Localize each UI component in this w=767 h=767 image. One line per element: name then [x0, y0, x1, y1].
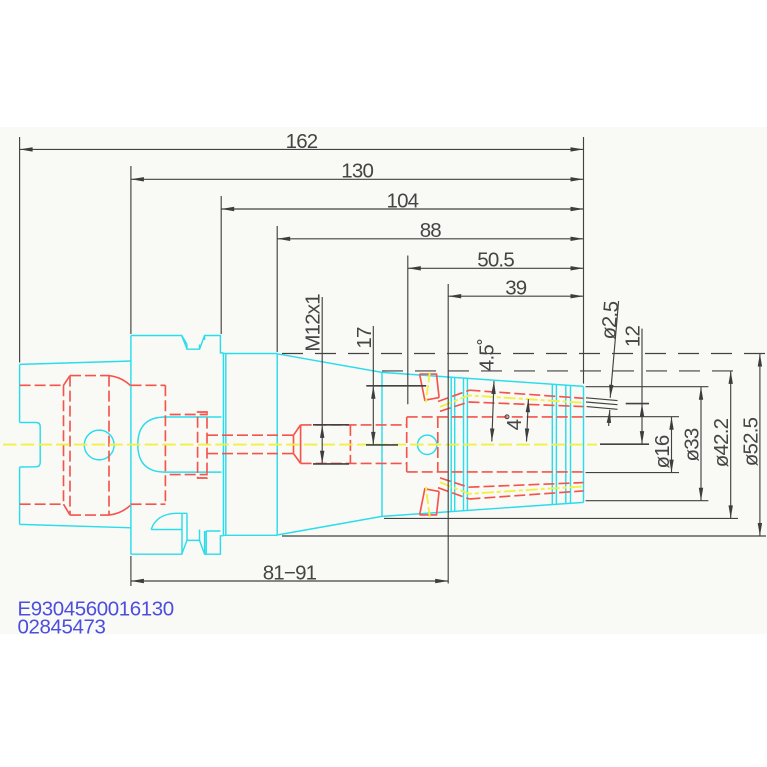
17 feature tick: [366, 385, 426, 387]
HSK shank outline: [20, 361, 131, 528]
extension line 88: [276, 226, 278, 352]
collet slot centerline upper: [426, 372, 430, 402]
dimension 104: [221, 208, 583, 210]
dimension 50.5: [408, 267, 584, 269]
nose end face: [583, 386, 585, 502]
main centerline: [3, 444, 597, 446]
12 tick: [626, 403, 649, 405]
svg-text:39: 39: [505, 277, 527, 300]
svg-text:02845473: 02845473: [18, 616, 106, 639]
svg-text:81−91: 81−91: [263, 561, 317, 584]
collet seat square: [407, 417, 438, 472]
M12x1 dimension line: [321, 297, 323, 425]
shallow 4deg cone edges: [382, 372, 584, 516]
svg-text:104: 104: [386, 189, 418, 212]
thread countersink: [294, 425, 301, 464]
svg-text:50.5: 50.5: [477, 249, 514, 272]
collet clamp range upper: [469, 390, 584, 406]
HSK bore dashed lines: [20, 385, 166, 504]
extension line nose face: [583, 137, 585, 384]
svg-text:ø52.5: ø52.5: [739, 417, 762, 466]
4deg dimension: [527, 399, 529, 441]
collet pilot circle: [418, 435, 437, 454]
Ø52.5 bottom extension: [282, 535, 766, 537]
flange left face: [130, 336, 132, 555]
flange bore vertical: [164, 385, 166, 504]
coolant pilot hole dashed: [207, 435, 294, 453]
extension line 50.5: [407, 256, 409, 405]
svg-text:4.5˚: 4.5˚: [476, 339, 499, 371]
coolant tube (dome): [138, 417, 222, 472]
svg-text:17: 17: [353, 327, 376, 349]
cone junction vertical: [381, 372, 383, 516]
HSK cavity outline: [63, 385, 65, 504]
collet range centerline upper: [440, 395, 584, 407]
svg-text:130: 130: [341, 160, 373, 183]
collet steep taper upper: [438, 390, 469, 411]
Ø16 ticks: [586, 417, 679, 473]
clamping nut rings: [552, 384, 570, 504]
17 centerline tick: [366, 444, 398, 446]
17 dimension line: [372, 326, 374, 386]
dimension 88: [277, 238, 583, 240]
svg-text:ø16: ø16: [651, 435, 674, 468]
flange top profile with V-groove: [131, 336, 224, 353]
extension line 104: [220, 196, 222, 334]
Ø2.5 leader ticks: [586, 398, 618, 410]
svg-text:ø2.5: ø2.5: [597, 300, 623, 340]
collet slot ear upper: [420, 374, 440, 400]
HSK left-face notch: [20, 423, 41, 468]
Ø52.5 top extension dashed: [282, 353, 766, 355]
M12 thread bore dashed: [301, 425, 407, 464]
dimension 162: [20, 148, 584, 150]
collet range centerline lower: [440, 482, 584, 494]
centerline tick right: [600, 443, 649, 445]
cone base face: [276, 354, 278, 536]
cavity corner chamfers: [64, 376, 71, 515]
collet slot centerline lower: [426, 487, 430, 517]
svg-text:ø42.2: ø42.2: [710, 418, 733, 467]
collet slot ear lower: [420, 489, 440, 515]
dimension 130: [131, 178, 584, 180]
nut rear rings: [451, 377, 467, 512]
svg-text:ø33: ø33: [681, 428, 704, 461]
svg-text:12: 12: [622, 326, 645, 348]
collet bore Ø16 dashed: [407, 417, 584, 472]
V-groove inner verticals top: [182, 336, 205, 350]
dimension 39: [448, 295, 583, 297]
Ø2.5 leader line: [610, 301, 618, 398]
adjust screw rect: [198, 412, 207, 478]
cavity mouth arcs: [109, 376, 130, 515]
bottom flange slot verticals: [182, 513, 220, 554]
collet steep taper lower: [438, 478, 469, 499]
Ø42.2 dimension line: [730, 371, 732, 519]
svg-text:4˚: 4˚: [503, 414, 526, 431]
Ø52.5 dimension line: [759, 354, 761, 537]
dimension 81-91: [131, 580, 448, 582]
extension line left shank: [19, 137, 21, 363]
Ø42.2 top extension dashed: [382, 370, 738, 372]
svg-text:162: 162: [286, 130, 318, 153]
Ø33 ticks: [586, 387, 709, 501]
Ø42.2 bottom extension: [384, 517, 738, 519]
extension line 39 / 81-91 right: [447, 284, 449, 584]
extension line flange left: [130, 166, 132, 586]
collet clamp range lower: [469, 483, 584, 499]
flange bottom profile with V-groove: [131, 536, 224, 554]
M12 ticks: [313, 425, 349, 464]
HSK pilot hole circle: [84, 430, 114, 460]
4.5deg dimension: [492, 381, 494, 442]
tube seat bore dashed: [170, 415, 208, 475]
drawing canvas tint: [0, 127, 767, 634]
body cylinder: [223, 353, 277, 536]
steep cone edges: [277, 354, 382, 535]
Ø16 dimension line: [671, 417, 673, 473]
Ø33 dimension line: [700, 387, 702, 501]
svg-text:88: 88: [420, 219, 442, 242]
drive slot leaf (bottom flange): [151, 513, 187, 529]
12 dimension line: [641, 329, 643, 404]
svg-text:M12x1: M12x1: [302, 294, 325, 352]
